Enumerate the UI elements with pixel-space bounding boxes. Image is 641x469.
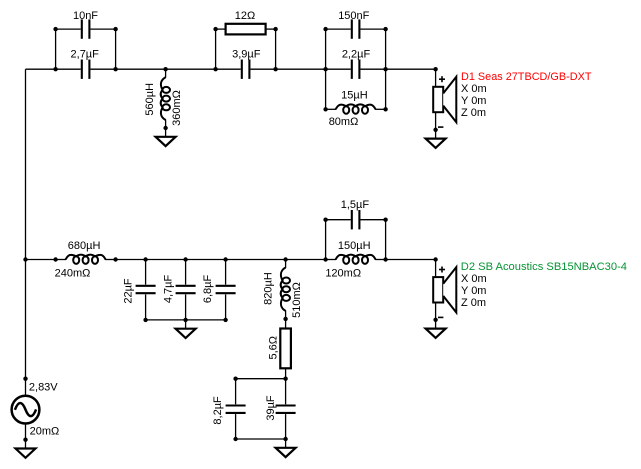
svg-text:10nF: 10nF: [73, 10, 98, 22]
capacitor C11 1,5µF: [326, 210, 386, 229]
svg-text:6,8µF: 6,8µF: [202, 275, 214, 304]
svg-text:360mΩ: 360mΩ: [171, 90, 183, 126]
capacitor C1 10nF: [56, 19, 116, 38]
wire: [276, 68, 326, 70]
capacitor C5 2,2µF: [326, 60, 386, 79]
voltage source V1 2,83V/20mΩ: [12, 379, 40, 440]
node N1: [53, 67, 57, 71]
svg-text:2,2µF: 2,2µF: [342, 49, 371, 61]
node N2: [113, 67, 117, 71]
capacitor C8 6,8µF: [216, 260, 236, 320]
node cap bank terminal: [183, 318, 187, 322]
capacitor C7 4,7µF: [176, 260, 196, 320]
speaker D2: [433, 260, 456, 321]
node N6b: [323, 107, 327, 111]
node L1 bottom terminal: [163, 126, 167, 130]
capacitor C6 22µF: [136, 260, 156, 320]
node N16: [283, 317, 287, 321]
svg-text:2,83V: 2,83V: [29, 382, 58, 394]
svg-text:680µH: 680µH: [68, 240, 101, 252]
node N3: [163, 67, 167, 71]
node N21: [433, 257, 437, 261]
wire: [385, 69, 387, 109]
node N18: [233, 377, 237, 381]
svg-text:5,6Ω: 5,6Ω: [268, 336, 280, 360]
node N22: [23, 377, 27, 381]
node N18b: [233, 437, 237, 441]
node N19a: [323, 218, 327, 222]
wire: [386, 259, 436, 261]
svg-text:8,2µF: 8,2µF: [212, 396, 224, 425]
node N8: [433, 67, 437, 71]
svg-text:Y 0m: Y 0m: [461, 285, 486, 297]
svg-text:12Ω: 12Ω: [235, 10, 255, 22]
capacitor C9 8,2µF: [226, 379, 246, 439]
speaker D1: [433, 69, 456, 130]
svg-text:X 0m: X 0m: [461, 83, 487, 95]
node D2 minus terminal: [433, 318, 437, 322]
node N14: [223, 257, 227, 261]
node N6a: [323, 27, 327, 31]
ground: [276, 439, 296, 457]
node N7: [383, 67, 387, 71]
wire: [26, 68, 56, 70]
inductor L5 150µH/120mΩ: [326, 255, 386, 264]
node cap bank 2 terminal: [283, 437, 287, 441]
wire: [236, 438, 286, 440]
svg-text:240mΩ: 240mΩ: [55, 267, 91, 279]
node D1 minus terminal: [433, 128, 437, 132]
ground: [176, 320, 196, 338]
node N9: [23, 257, 27, 261]
node N14b: [223, 318, 227, 322]
node N5: [273, 67, 277, 71]
svg-text:1,5µF: 1,5µF: [341, 199, 370, 211]
node N15: [283, 257, 287, 261]
wire: [236, 378, 286, 380]
node N7a: [383, 27, 387, 31]
node N12: [143, 257, 147, 261]
wire: [146, 319, 226, 321]
node N7b: [383, 107, 387, 111]
wire: [26, 259, 56, 261]
svg-text:Y 0m: Y 0m: [461, 95, 486, 107]
capacitor C4 150nF: [326, 19, 386, 38]
svg-text:80mΩ: 80mΩ: [329, 116, 359, 128]
svg-text:X 0m: X 0m: [461, 273, 487, 285]
svg-text:3,9µF: 3,9µF: [232, 49, 261, 61]
svg-text:120mΩ: 120mΩ: [325, 267, 361, 279]
wire: [116, 68, 216, 70]
inductor L1 560µH/360mΩ: [161, 69, 170, 128]
svg-text:820µH: 820µH: [263, 272, 275, 305]
node N12b: [143, 318, 147, 322]
ground: [426, 130, 446, 148]
wire: [275, 29, 277, 69]
inductor L3 680µH/240mΩ: [56, 255, 116, 264]
svg-text:150µH: 150µH: [338, 240, 371, 252]
node N4: [213, 67, 217, 71]
wire: [385, 29, 387, 69]
svg-text:15µH: 15µH: [341, 89, 368, 101]
wire: [215, 29, 217, 69]
wire: [25, 69, 27, 379]
wire: [325, 220, 327, 260]
node N2a: [113, 27, 117, 31]
node source minus terminal: [23, 438, 27, 442]
ground: [426, 320, 446, 338]
wire: [325, 69, 327, 109]
svg-text:Z 0m: Z 0m: [461, 297, 486, 309]
svg-text:22µF: 22µF: [123, 278, 135, 304]
capacitor C3 3,9µF: [216, 60, 276, 79]
ground: [16, 440, 36, 458]
svg-text:4,7µF: 4,7µF: [162, 275, 174, 304]
wire: [116, 259, 326, 261]
wire: [385, 220, 387, 260]
node N10: [53, 257, 57, 261]
node N1a: [53, 27, 57, 31]
wire: [115, 29, 117, 69]
node N13: [183, 257, 187, 261]
node N4a: [213, 27, 217, 31]
node N17: [283, 377, 287, 381]
node N20: [383, 257, 387, 261]
svg-text:20mΩ: 20mΩ: [30, 426, 60, 438]
wire: [386, 68, 436, 70]
inductor L4 820µH/510mΩ: [281, 260, 290, 319]
capacitor C2 2,7µF: [56, 60, 116, 79]
svg-text:560µH: 560µH: [144, 83, 156, 116]
wire: [55, 29, 57, 69]
node N6: [323, 67, 327, 71]
svg-text:Z 0m: Z 0m: [461, 107, 486, 119]
svg-text:D2 SB Acoustics SB15NBAC30-4: D2 SB Acoustics SB15NBAC30-4: [461, 261, 627, 273]
svg-text:510mΩ: 510mΩ: [291, 282, 303, 318]
resistor R1 12Ω: [216, 24, 276, 35]
node N5a: [273, 27, 277, 31]
node N20a: [383, 218, 387, 222]
svg-text:2,7µF: 2,7µF: [71, 49, 100, 61]
wire: [325, 29, 327, 69]
svg-text:150nF: 150nF: [338, 10, 369, 22]
svg-text:D1 Seas 27TBCD/GB-DXT: D1 Seas 27TBCD/GB-DXT: [461, 71, 592, 83]
svg-text:39µF: 39µF: [265, 395, 277, 421]
ground: [156, 128, 176, 146]
capacitor C10 39µF: [276, 379, 296, 439]
node N11: [113, 257, 117, 261]
inductor L2 15µH/80mΩ: [326, 104, 386, 113]
resistor R2 5,6Ω: [280, 319, 291, 379]
node N19: [323, 257, 327, 261]
